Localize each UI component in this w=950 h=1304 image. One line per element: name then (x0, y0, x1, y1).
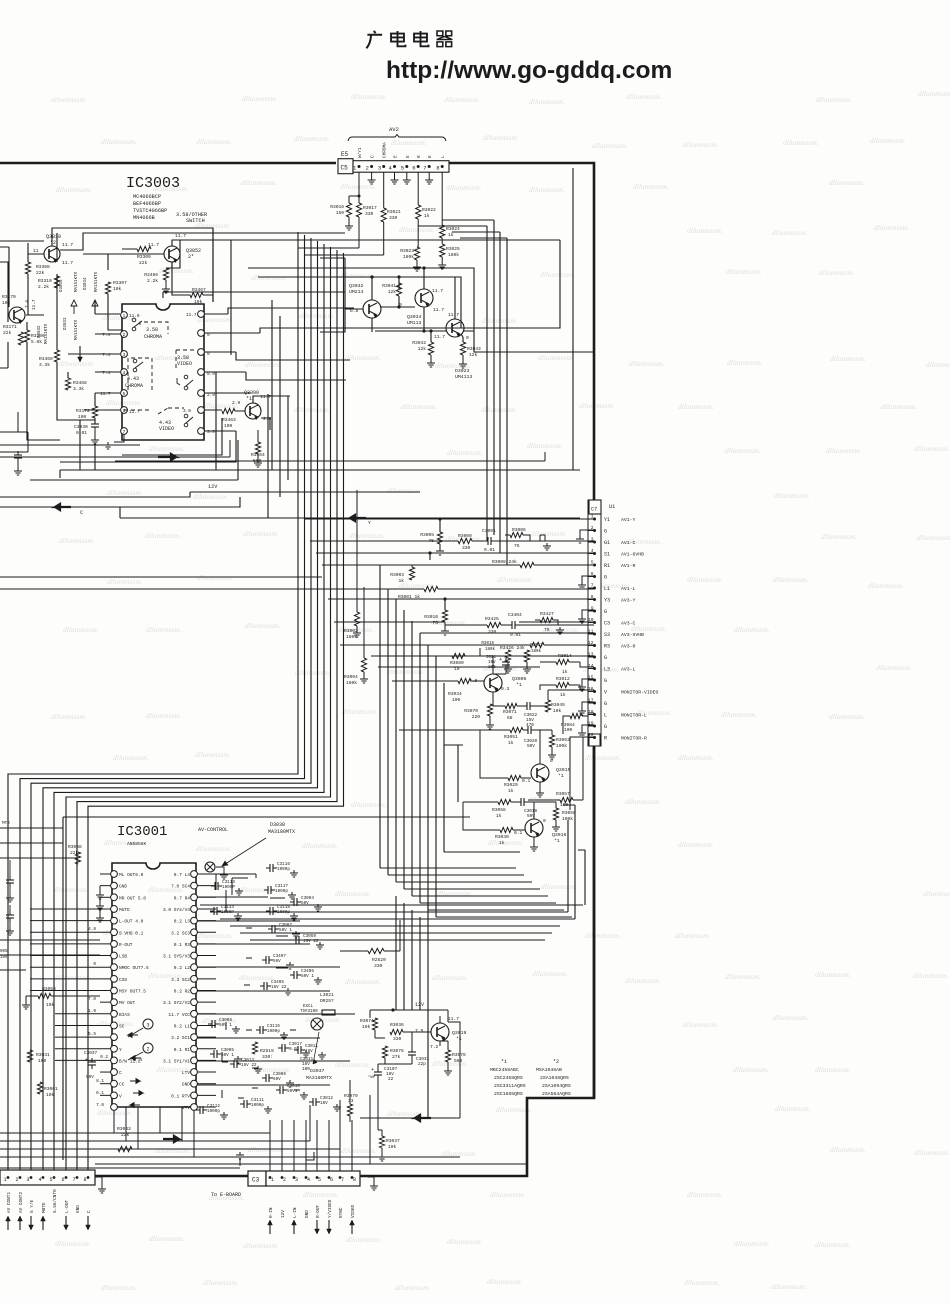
svg-text:Q3016: Q3016 (552, 832, 567, 838)
svg-text:http://www.go-gddq.com: http://www.go-gddq.com (386, 57, 672, 84)
svg-text:16V 22: 16V 22 (241, 1063, 257, 1068)
capacitor C3008 50V 1 (211, 1020, 213, 1028)
connector C7 body (588, 500, 601, 746)
transistor Q3390 (245, 403, 261, 419)
svg-text:10k: 10k (46, 1002, 55, 1008)
svg-text:SWITCH: SWITCH (186, 218, 205, 224)
IC3001 left pin external labels (100, 873, 111, 875)
svg-text:3.58: 3.58 (146, 327, 158, 333)
svg-text:dllummssm.: dllummssm. (432, 973, 468, 982)
svg-text:R3070: R3070 (464, 708, 478, 714)
svg-text:3.3k: 3.3k (73, 386, 84, 392)
svg-text:11.7: 11.7 (175, 233, 186, 239)
svg-text:dllummssm.: dllummssm. (242, 94, 278, 103)
svg-text:dllummssm.: dllummssm. (783, 138, 819, 147)
svg-text:8: 8 (353, 1177, 356, 1183)
svg-text:L3: L3 (604, 667, 610, 673)
wire C7 pin7 AV1-L resistor R3001 1k (424, 586, 438, 591)
capacitor C3107 16V 22 (374, 1071, 382, 1073)
svg-text:330: 330 (488, 629, 497, 635)
wire C5 pin1 down (358, 172, 360, 203)
ground C3 pin4 stub (306, 1152, 314, 1160)
svg-text:12k: 12k (418, 346, 427, 352)
svg-text:12k: 12k (388, 289, 397, 295)
svg-text:2SA1094QRS: 2SA1094QRS (542, 1083, 571, 1089)
svg-text:R3005: R3005 (420, 532, 434, 538)
svg-text:ML OUT6.0: ML OUT6.0 (119, 872, 144, 878)
resistor R3031 100 (27, 1050, 32, 1062)
transistor Q3034 UM113 upper (415, 289, 433, 307)
wire cluster left entries (320, 168, 573, 470)
svg-text:1k: 1k (508, 740, 514, 746)
wire cap field row extensions (197, 874, 355, 1085)
resistor R3009 330 (458, 538, 472, 543)
svg-text:3.2 SC1: 3.2 SC1 (171, 1035, 190, 1041)
svg-text:dllummssm.: dllummssm. (241, 178, 277, 187)
svg-text:R-OUT: R-OUT (119, 942, 133, 948)
svg-text:8: 8 (436, 165, 439, 172)
svg-text:dllummssm.: dllummssm. (914, 1148, 950, 1157)
svg-text:dllummssm.: dllummssm. (59, 359, 95, 368)
svg-text:0.1 R1: 0.1 R1 (174, 1047, 191, 1053)
header chinese title (366, 31, 382, 48)
svg-text:dllummssm.: dllummssm. (734, 625, 770, 634)
svg-text:10k: 10k (553, 708, 562, 714)
svg-text:6: 6 (412, 165, 415, 172)
svg-text:dllummssm.: dllummssm. (721, 710, 757, 719)
svg-text:dllummssm.: dllummssm. (826, 446, 862, 455)
svg-text:dllummssm.: dllummssm. (395, 1283, 431, 1292)
svg-text:3: 3 (146, 1023, 149, 1029)
svg-text:UM113: UM113 (407, 320, 422, 326)
svg-text:dllummssm.: dllummssm. (345, 977, 381, 986)
svg-text:dllummssm.: dllummssm. (481, 405, 517, 414)
wire C7 pin15 ground (593, 678, 595, 680)
svg-text:0.01: 0.01 (76, 430, 87, 436)
circled number 3 (143, 1019, 153, 1029)
svg-text:dllummssm.: dllummssm. (63, 625, 99, 634)
svg-text:AV2: AV2 (389, 126, 399, 133)
svg-text:dllummssm.: dllummssm. (625, 976, 661, 985)
svg-text:G1: G1 (604, 540, 610, 546)
IC3003 right pin 13 (198, 407, 205, 414)
svg-text:R3023: R3023 (400, 248, 414, 254)
svg-text:dllummssm.: dllummssm. (444, 95, 480, 104)
svg-text:Y: Y (119, 1047, 122, 1053)
svg-text:dllummssm.: dllummssm. (870, 136, 906, 145)
svg-text:C3030: C3030 (74, 424, 88, 430)
svg-text:R3172: R3172 (76, 408, 90, 414)
svg-text:MN4066B: MN4066B (133, 215, 155, 221)
wire top-left bus 1 (0, 240, 44, 242)
svg-text:100k: 100k (556, 743, 567, 749)
capacitor C3115 1000p (259, 1026, 261, 1034)
svg-text:11: 11 (33, 248, 39, 254)
wire Q3052 collector (172, 240, 560, 246)
svg-text:dllummssm.: dllummssm. (145, 531, 181, 540)
svg-text:11.7: 11.7 (433, 307, 444, 313)
wire IC3001 bottom exits (114, 1107, 194, 1157)
svg-text:16V: 16V (488, 661, 496, 665)
svg-text:R3049: R3049 (551, 702, 565, 708)
svg-text:1k: 1k (560, 692, 566, 698)
svg-text:1000p: 1000p (267, 1029, 280, 1034)
svg-text:C: C (371, 155, 376, 158)
svg-text:SC: SC (119, 1023, 125, 1029)
svg-text:E: E (428, 155, 433, 158)
svg-text:E5: E5 (341, 151, 349, 158)
wire C7 pin16 MONITOR-VIDEO (593, 689, 595, 691)
svg-text:dllummssm.: dllummssm. (541, 882, 577, 891)
svg-text:dllummssm.: dllummssm. (633, 182, 669, 191)
svg-text:dllummssm.: dllummssm. (540, 270, 576, 279)
svg-text:AV3-L: AV3-L (621, 667, 636, 673)
svg-text:R3009: R3009 (458, 533, 472, 539)
IC3001 right pin 1 (191, 871, 198, 878)
svg-text:TVSTC4066BP: TVSTC4066BP (133, 208, 167, 214)
svg-text:*1: *1 (558, 773, 564, 779)
IC3001 right pin 4 (191, 906, 198, 913)
svg-text:L-IN: L-IN (293, 1207, 298, 1218)
wire bundle C5 jogs (298, 232, 384, 255)
svg-text:0: 0 (550, 758, 553, 764)
svg-text:R2819: R2819 (260, 1048, 274, 1054)
svg-text:1k: 1k (499, 840, 505, 846)
svg-text:50V 1: 50V 1 (301, 974, 314, 979)
svg-text:R3469: R3469 (39, 356, 53, 362)
capacitor C3113 1000P (214, 882, 216, 890)
wire IC3003 right pins (204, 314, 260, 431)
wire left edge components upper (0, 412, 28, 452)
svg-text:*1: *1 (246, 396, 252, 402)
wire 12V rail (0, 492, 420, 497)
svg-text:0.2 L2: 0.2 L2 (174, 965, 191, 971)
svg-text:NMOC OUT7.5: NMOC OUT7.5 (119, 965, 149, 971)
capacitor C3117 1000p (267, 886, 269, 894)
svg-text:dllummssm.: dllummssm. (874, 223, 910, 232)
svg-text:dllummssm.: dllummssm. (687, 575, 723, 584)
svg-text:dllummssm.: dllummssm. (101, 1283, 137, 1292)
resistor R3427 75 (540, 617, 553, 622)
resistor R3308 22k (25, 262, 30, 274)
svg-text:11.0: 11.0 (129, 314, 140, 319)
svg-text:MV OUT: MV OUT (119, 1000, 136, 1006)
svg-text:G: G (604, 575, 607, 581)
svg-text:3.3k: 3.3k (39, 362, 50, 368)
svg-text:5.56/CNTR: 5.56/CNTR (53, 1189, 58, 1213)
capacitor left edge 1 (6, 879, 14, 881)
IC3003 left pin 3 (121, 351, 128, 358)
IC3001 outer box (63, 817, 470, 1160)
svg-text:330: 330 (462, 545, 471, 551)
svg-text:11.7: 11.7 (186, 313, 197, 318)
resistor R3089 10 (452, 653, 465, 658)
svg-text:dllummssm.: dllummssm. (388, 667, 424, 676)
svg-text:100: 100 (38, 1058, 47, 1064)
ground IC3003 pin7 (114, 434, 124, 442)
svg-text:4: 4 (123, 371, 126, 376)
wire IC3003 extra loops (60, 418, 236, 470)
svg-text:0.1 RTV: 0.1 RTV (171, 1093, 190, 1099)
svg-text:dllummssm.: dllummssm. (678, 840, 714, 849)
svg-text:dllummssm.: dllummssm. (447, 448, 483, 457)
diode D3037 circle (311, 1018, 323, 1030)
svg-text:dllummssm.: dllummssm. (815, 1240, 851, 1249)
svg-text:5: 5 (50, 1177, 53, 1183)
svg-text:R3015: R3015 (481, 642, 494, 646)
circled number 2 (143, 1043, 153, 1053)
svg-text:dllummssm.: dllummssm. (56, 185, 92, 194)
svg-text:12k: 12k (469, 352, 478, 358)
svg-text:2SC2458QRS: 2SC2458QRS (494, 1075, 523, 1081)
svg-text:7.2: 7.2 (430, 1044, 439, 1050)
svg-text:AV-CONTROL: AV-CONTROL (198, 827, 228, 833)
svg-text:MA151KTX: MA151KTX (75, 271, 79, 292)
signal down arrow left (79, 346, 81, 361)
capacitor C3011 16V (297, 1046, 299, 1054)
svg-text:To E-BOARD: To E-BOARD (211, 1192, 241, 1198)
svg-text:S3: S3 (604, 632, 610, 638)
wire Q3019 loop (360, 1022, 460, 1118)
svg-text:Y: Y (368, 520, 371, 526)
wire R3467 net (172, 262, 213, 295)
svg-text:R3310: R3310 (38, 278, 52, 284)
svg-text:dllummssm.: dllummssm. (106, 398, 142, 407)
svg-text:56V: 56V (273, 959, 281, 964)
svg-text:4: 4 (307, 1177, 310, 1183)
wire C7 pin10 AV3-C (519, 621, 594, 623)
wire bundle2 lower verticals (396, 896, 428, 1118)
svg-text:dllummssm.: dllummssm. (683, 1020, 719, 1029)
resistor R3076 27k (382, 1046, 387, 1058)
svg-text:dllummssm.: dllummssm. (351, 800, 387, 809)
svg-text:50V: 50V (86, 1075, 94, 1080)
IC3001 left pin 4 (111, 906, 118, 913)
svg-text:dllummssm.: dllummssm. (585, 753, 621, 762)
svg-text:dllummssm.: dllummssm. (59, 536, 95, 545)
IC3003 left pin 7 (121, 428, 128, 435)
svg-text:D3034: D3034 (84, 277, 88, 290)
svg-text:dllummssm.: dllummssm. (341, 1146, 377, 1155)
wire C arrow row (0, 497, 240, 507)
svg-text:dllummssm.: dllummssm. (579, 401, 615, 410)
svg-text:2: 2 (283, 1177, 286, 1183)
resistor R3063 100k (549, 735, 554, 747)
svg-text:C3037: C3037 (84, 1051, 98, 1056)
svg-text:dllummssm.: dllummssm. (51, 95, 87, 104)
svg-text:dllummssm.: dllummssm. (51, 712, 87, 721)
capacitor C3030 0.01 (91, 423, 99, 425)
svg-text:E: E (394, 155, 399, 158)
svg-text:R3308: R3308 (36, 264, 50, 270)
svg-text:C: C (80, 510, 83, 516)
svg-text:dllummssm.: dllummssm. (625, 797, 661, 806)
svg-text:180k: 180k (403, 254, 414, 260)
svg-text:150: 150 (336, 210, 345, 216)
capacitor C3031 22p (408, 1051, 416, 1053)
svg-text:1000p: 1000p (207, 1109, 220, 1114)
svg-text:dllummssm.: dllummssm. (830, 354, 866, 363)
svg-text:16V: 16V (305, 1049, 313, 1054)
svg-text:dllummssm.: dllummssm. (146, 711, 182, 720)
svg-text:W/Y1: W/Y1 (358, 147, 363, 158)
svg-text:dllummssm.: dllummssm. (771, 1282, 807, 1291)
svg-text:2.9: 2.9 (232, 400, 241, 406)
svg-text:MC4066BCP: MC4066BCP (133, 194, 161, 200)
svg-text:R3016: R3016 (330, 204, 344, 210)
svg-text:dllummssm.: dllummssm. (529, 185, 565, 194)
resistor R3030 1k (500, 827, 513, 832)
ground right of C3 (368, 1177, 374, 1183)
svg-text:7: 7 (341, 1177, 344, 1183)
wire C7 pin1 AV1-Y (440, 519, 594, 532)
capacitor C3022 15V 470 (526, 702, 528, 710)
svg-text:2: 2 (146, 1047, 149, 1053)
resistor R3021 330 (381, 208, 386, 222)
IC3001 left pin 8 (111, 952, 118, 959)
svg-text:10k: 10k (194, 299, 203, 305)
capacitor C3017 0.01 (281, 1044, 283, 1052)
svg-text:0: 0 (207, 352, 210, 357)
wire IC3001 right pin stubs (197, 874, 216, 1107)
svg-text:"WP: "WP (368, 1075, 376, 1080)
svg-text:R3008 24k: R3008 24k (492, 559, 517, 565)
IC3003 right pin 9 (198, 330, 205, 337)
svg-text:75: 75 (514, 543, 520, 549)
svg-text:470: 470 (526, 723, 534, 728)
svg-text:1: 1 (271, 1177, 274, 1183)
svg-text:dllummssm.: dllummssm. (529, 97, 565, 106)
svg-text:68: 68 (507, 715, 513, 721)
svg-text:UM214: UM214 (349, 289, 364, 295)
IC3001 right pin 7 (191, 941, 198, 948)
svg-text:MONITOR-L: MONITOR-L (621, 713, 647, 719)
svg-text:7.0: 7.0 (88, 997, 96, 1002)
svg-text:R3063: R3063 (556, 737, 570, 743)
svg-text:16V: 16V (320, 1101, 328, 1106)
svg-text:G: G (604, 724, 607, 730)
svg-text:dllummssm.: dllummssm. (447, 1237, 483, 1246)
svg-text:1000p: 1000p (251, 1103, 264, 1108)
svg-text:10k: 10k (0, 955, 8, 960)
svg-text:R3037: R3037 (386, 1138, 400, 1144)
IC3001 left pin 20 (111, 1092, 118, 1099)
svg-text:330: 330 (374, 963, 383, 969)
capacitor C3012 16V (312, 1098, 314, 1106)
pin arrow Y in (131, 1056, 141, 1061)
svg-text:R3078: R3078 (452, 1052, 466, 1058)
svg-text:0: 0 (543, 818, 546, 824)
svg-text:D3033: D3033 (64, 317, 68, 330)
svg-text:27k: 27k (392, 1054, 401, 1060)
capacitor C3005 50V 1 (213, 1050, 215, 1058)
resistor R3079 33 (347, 1104, 352, 1116)
IC3001 left pin 3 (111, 894, 118, 901)
wire Q3034 vertical (423, 268, 425, 331)
svg-text:IC3003: IC3003 (126, 175, 180, 192)
resistor R3057 100 (560, 797, 573, 802)
svg-text:R3003: R3003 (390, 572, 404, 578)
resistor R3029 1k (508, 775, 521, 780)
svg-text:VIDEO: VIDEO (351, 1204, 356, 1218)
wire short rows under IC3003 left (0, 440, 545, 461)
svg-text:10k: 10k (46, 1092, 55, 1098)
resistor R3016 150 (346, 203, 351, 217)
svg-text:dllummssm.: dllummssm. (342, 707, 378, 716)
svg-text:4: 4 (39, 1177, 42, 1183)
svg-text:75: 75 (544, 627, 550, 633)
svg-text:5.5: 5.5 (88, 1032, 96, 1037)
svg-text:560: 560 (454, 1058, 463, 1064)
svg-text:11.7: 11.7 (62, 260, 73, 266)
svg-text:Y3: Y3 (604, 598, 610, 604)
svg-text:Q3032: Q3032 (349, 283, 364, 289)
svg-text:7: 7 (73, 1177, 76, 1183)
capacitor C3112 1000p (199, 1106, 201, 1114)
svg-text:2SA564AQRS: 2SA564AQRS (542, 1091, 571, 1097)
svg-text:GND: GND (76, 1205, 81, 1213)
resistor R3025 180k (441, 238, 443, 244)
svg-text:VTV: VTV (182, 1105, 190, 1111)
IC3001 right pin 6 (191, 929, 198, 936)
svg-text:330: 330 (389, 215, 398, 221)
svg-text:AV1-L: AV1-L (621, 586, 636, 592)
svg-text:dllummssm.: dllummssm. (727, 358, 763, 367)
svg-text:10k: 10k (362, 1024, 371, 1030)
resistor R3071 68 (505, 703, 517, 708)
svg-text:dllummssm.: dllummssm. (303, 1190, 339, 1199)
svg-text:dllummssm.: dllummssm. (203, 1278, 239, 1287)
svg-text:MUTE: MUTE (119, 907, 130, 913)
wire Q3032 base (320, 309, 363, 332)
svg-text:dllummssm.: dllummssm. (483, 133, 519, 142)
svg-text:BIAS: BIAS (119, 1012, 130, 1018)
svg-text:3.0 SY4/V4: 3.0 SY4/V4 (163, 907, 190, 913)
svg-text:22k: 22k (3, 330, 12, 336)
svg-text:AV CONT2: AV CONT2 (19, 1192, 24, 1213)
svg-text:2SC1685QRS: 2SC1685QRS (494, 1091, 523, 1097)
svg-text:dllummssm.: dllummssm. (345, 353, 381, 362)
svg-text:U1: U1 (609, 504, 615, 510)
resistor R3005 75 (437, 532, 442, 544)
svg-text:dllummssm.: dllummssm. (626, 92, 662, 101)
wire bottom exit rows (60, 443, 580, 478)
svg-text:R3076: R3076 (390, 1048, 404, 1054)
wire C5 pin6 down (417, 172, 419, 205)
ground C5 pin7 (428, 172, 430, 177)
transistor Q3050 left edge (9, 307, 25, 323)
svg-text:dllummssm.: dllummssm. (829, 178, 865, 187)
IC3001 left pin 17 (111, 1057, 118, 1064)
svg-text:AV3-C: AV3-C (621, 621, 636, 627)
svg-text:7.9: 7.9 (415, 1028, 424, 1034)
svg-text:dllummssm.: dllummssm. (773, 575, 809, 584)
svg-text:0.1: 0.1 (522, 778, 531, 784)
svg-text:0.3: 0.3 (501, 686, 510, 692)
svg-text:dllummssm.: dllummssm. (868, 581, 904, 590)
svg-text:dllummssm.: dllummssm. (913, 971, 949, 980)
IC3001 right pin 3 (191, 894, 198, 901)
IC3001 right pin 14 (191, 1022, 198, 1029)
svg-text:7: 7 (423, 165, 426, 172)
connector C5 body (338, 159, 353, 174)
svg-text:0.01: 0.01 (484, 547, 495, 553)
resistor R3037 10k (378, 1079, 382, 1130)
IC3003 right pin 8 (198, 311, 205, 318)
svg-text:R-OUT: R-OUT (316, 1204, 321, 1218)
svg-text:R3029: R3029 (504, 782, 518, 788)
IC3001 left pin 10 (111, 975, 118, 982)
